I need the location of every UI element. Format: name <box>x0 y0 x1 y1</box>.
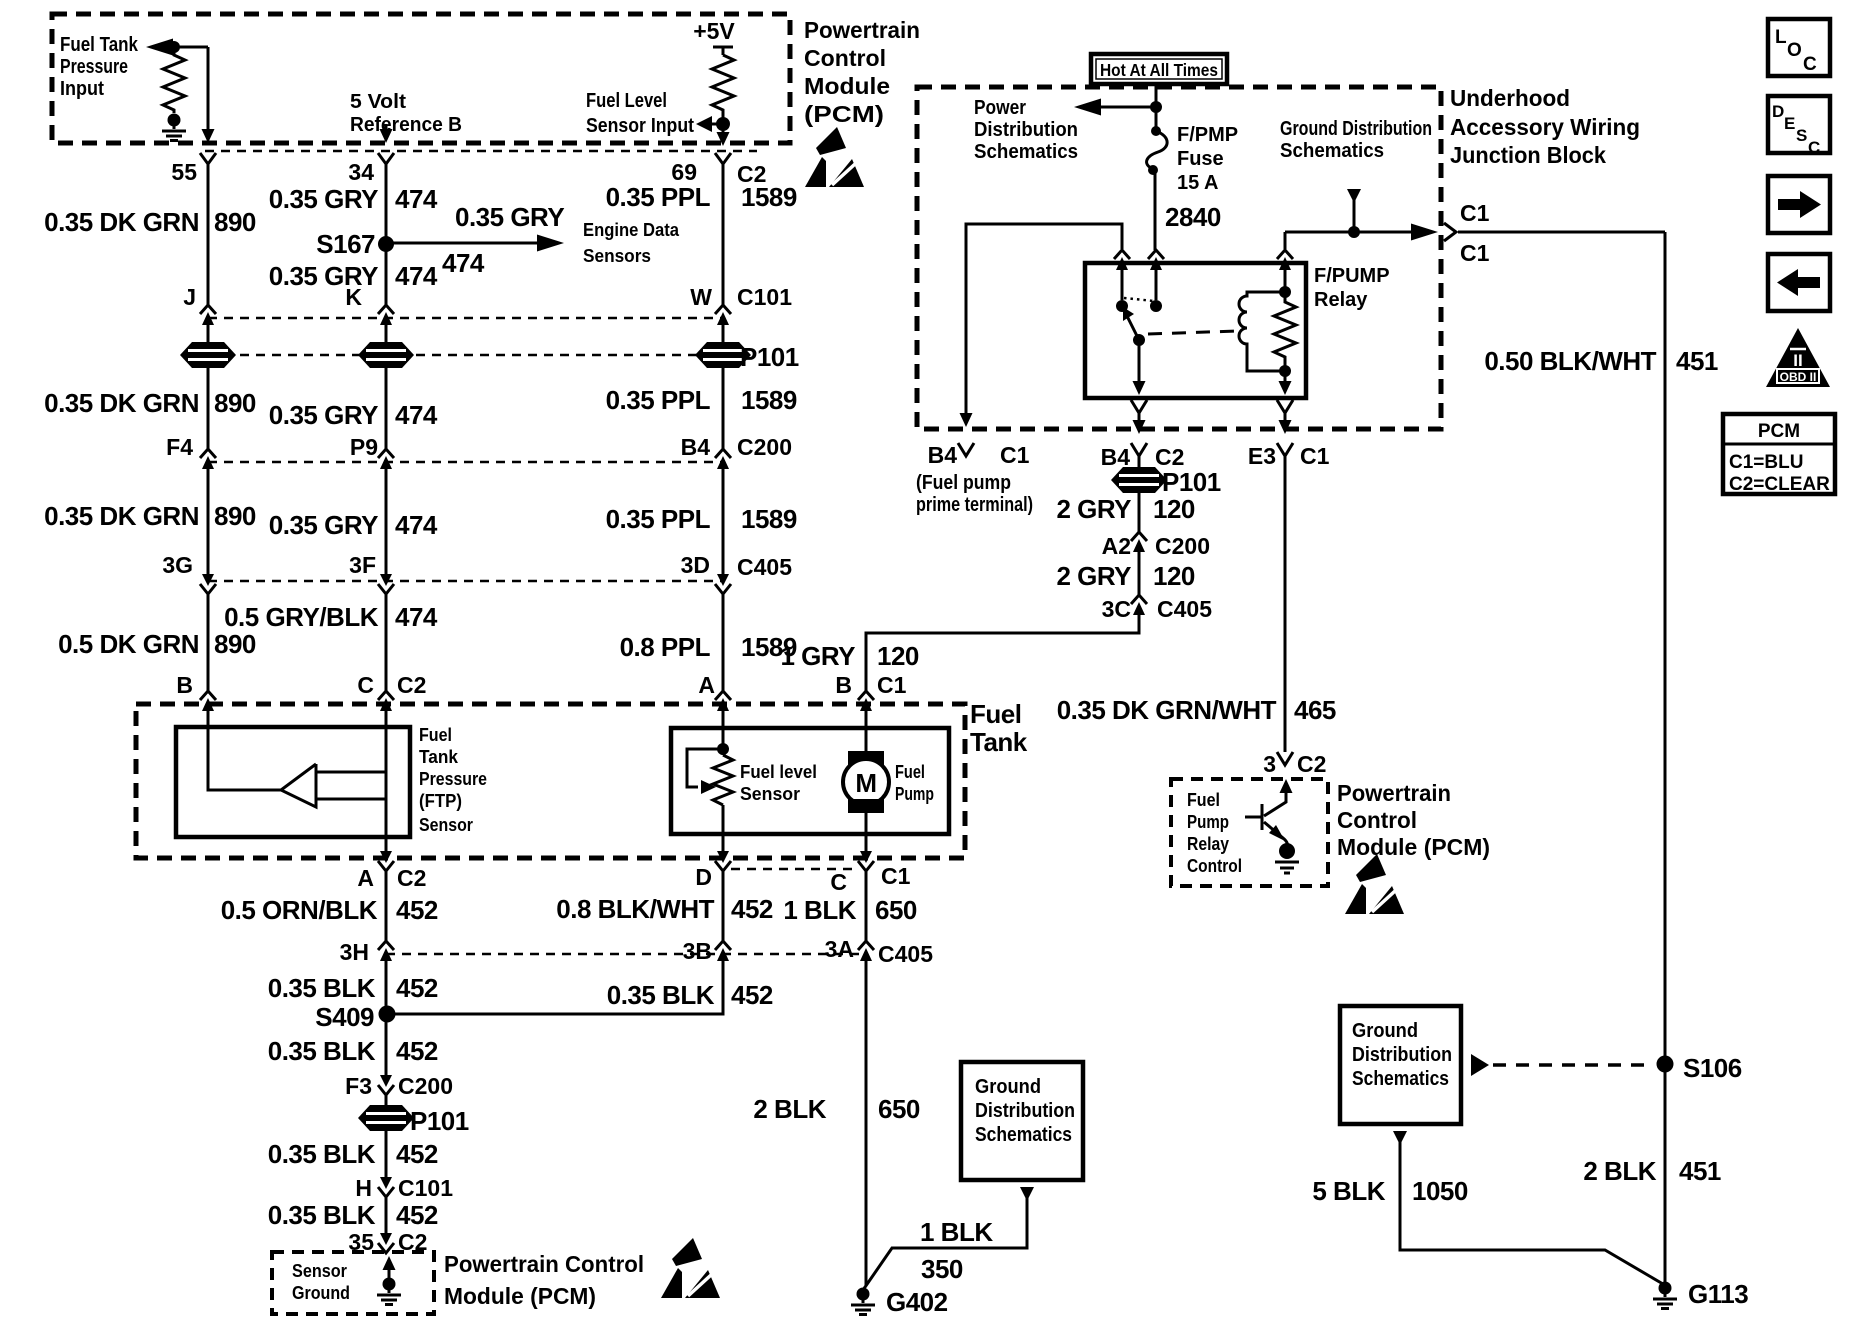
label F/PMP Fuse 15 A <box>1177 124 1238 194</box>
svg-text:PCM: PCM <box>1758 421 1800 442</box>
icon arrow left <box>1768 254 1830 311</box>
icon LOC <box>1768 19 1830 76</box>
Ground Distribution Schematics box left <box>961 1062 1083 1180</box>
svg-text:C200: C200 <box>398 1073 453 1099</box>
svg-text:0.35 BLK: 0.35 BLK <box>268 1036 376 1066</box>
wire 650 segment1 <box>865 871 868 941</box>
svg-text:452: 452 <box>396 1036 438 1066</box>
pin K C101 <box>345 284 394 325</box>
label 2 BLK 650 <box>753 1094 920 1124</box>
wire fuse to relay <box>1154 173 1157 250</box>
svg-text:474: 474 <box>395 184 438 214</box>
svg-text:0.8 BLK/WHT: 0.8 BLK/WHT <box>556 894 714 924</box>
svg-text:Fuel: Fuel <box>419 725 452 745</box>
svg-text:0.8 PPL: 0.8 PPL <box>620 632 711 662</box>
svg-text:Ground: Ground <box>975 1076 1041 1098</box>
label Ground Distribution Schematics right <box>1352 1020 1452 1090</box>
svg-text:3A: 3A <box>825 936 854 962</box>
ESD symbol PCM top <box>805 127 864 187</box>
label Fuel Tank Pressure (FTP) Sensor <box>419 725 487 835</box>
wire 474 segment1 (pin34 to S167) <box>385 164 388 240</box>
pin A fuel tank level sensor <box>698 672 731 711</box>
icon OBD II triangle <box>1766 328 1830 387</box>
svg-text:Fuse: Fuse <box>1177 148 1224 170</box>
svg-text:Schematics: Schematics <box>974 141 1078 163</box>
relay switch blade <box>1123 307 1145 346</box>
svg-text:474: 474 <box>395 400 438 430</box>
svg-text:452: 452 <box>396 1200 438 1230</box>
svg-text:Fuel: Fuel <box>970 699 1021 729</box>
svg-text:0.35 PPL: 0.35 PPL <box>606 182 711 212</box>
svg-text:451: 451 <box>1679 1156 1721 1186</box>
svg-text:F/PUMP: F/PUMP <box>1314 265 1390 287</box>
node splice S167 <box>316 229 394 259</box>
relay mechanical dashed link <box>1148 331 1237 334</box>
svg-text:A: A <box>698 672 715 698</box>
label Fuel Level Sensor Input <box>586 90 694 137</box>
wire FTP B lead <box>208 711 281 790</box>
pin C C1 pump output <box>830 851 910 895</box>
svg-text:1589: 1589 <box>741 182 797 212</box>
wire ground distribution antenna tap <box>1347 189 1361 238</box>
svg-text:Sensor: Sensor <box>740 784 800 804</box>
svg-text:S: S <box>1796 126 1807 145</box>
svg-text:452: 452 <box>731 980 773 1010</box>
label fuel pump prime terminal <box>916 472 1033 516</box>
svg-text:120: 120 <box>1153 561 1195 591</box>
svg-text:34: 34 <box>348 159 374 185</box>
label 2 BLK 451 <box>1583 1156 1721 1186</box>
svg-text:474: 474 <box>395 510 438 540</box>
svg-text:Relay: Relay <box>1187 834 1229 854</box>
wire FTP triangle top lead <box>316 771 386 774</box>
svg-text:0.35 BLK: 0.35 BLK <box>268 973 376 1003</box>
svg-text:M: M <box>855 768 876 798</box>
resistor relay <box>1274 292 1296 371</box>
wire 452 segment3 <box>385 1095 388 1106</box>
label 0.35 DK GRN 890 row2 <box>44 388 256 418</box>
svg-text:C1: C1 <box>1000 442 1030 468</box>
connector C405 line <box>208 580 723 583</box>
wire 452 A segment1 <box>385 871 388 941</box>
label Powertrain Control Module (PCM) right <box>1337 780 1490 860</box>
label 0.35 BLK 452 jumper <box>607 980 773 1010</box>
svg-text:Distribution: Distribution <box>1352 1044 1452 1066</box>
wire 1589 segment2 <box>722 325 725 343</box>
pin 3C C405 <box>1102 595 1213 622</box>
label 0.8 PPL 1589 <box>620 632 797 662</box>
svg-text:2 BLK: 2 BLK <box>753 1094 826 1124</box>
label Engine Data Sensors <box>583 220 680 266</box>
wire FTP C vertical through <box>385 711 388 851</box>
node junction dot FTP input <box>168 41 180 53</box>
label Fuel Pump <box>895 762 934 804</box>
label Sensor Ground <box>292 1261 350 1303</box>
wire 465 vertical <box>1284 456 1287 752</box>
label Fuel level Sensor <box>740 762 817 804</box>
grommet P101 wire2 <box>358 342 414 368</box>
label 0.35 GRY 474 row3 <box>269 510 438 540</box>
svg-text:Junction Block: Junction Block <box>1450 142 1606 168</box>
svg-text:D: D <box>695 864 712 890</box>
label 0.5 GRY/BLK 474 <box>224 602 438 632</box>
label Ground Distribution Schematics left <box>975 1076 1075 1146</box>
svg-text:B: B <box>835 672 852 698</box>
pin 69 C2 <box>671 153 766 187</box>
label 0.5 ORN/BLK 452 <box>221 895 438 925</box>
wire dashed link to S106 <box>1471 1054 1653 1076</box>
wire relay 30 to C1 line <box>1284 232 1287 249</box>
wire 1589 segment5 <box>722 594 725 691</box>
svg-text:C2: C2 <box>397 672 426 698</box>
svg-text:Tank: Tank <box>419 747 459 767</box>
svg-text:E3: E3 <box>1248 443 1276 469</box>
wire 452 segment4 <box>385 1130 388 1177</box>
resistor FTP pull-up <box>163 47 185 113</box>
svg-text:C2: C2 <box>397 865 426 891</box>
wire 890 segment5 <box>207 594 210 691</box>
Ground Distribution Schematics box right <box>1340 1006 1461 1124</box>
label 0.35 DK GRN 890 row1 <box>44 207 256 237</box>
wire B4 C1 branch <box>966 224 1122 415</box>
resistor fuel level sensor <box>713 755 733 805</box>
pin 3B C405 <box>683 938 731 964</box>
svg-text:3D: 3D <box>681 552 710 578</box>
svg-text:3G: 3G <box>162 552 193 578</box>
wire 474 segment6 <box>385 594 388 691</box>
Sensor Ground dashed box <box>272 1252 434 1314</box>
wire 1589 segment3 <box>722 367 725 449</box>
svg-text:465: 465 <box>1294 695 1336 725</box>
svg-text:S106: S106 <box>1683 1053 1742 1083</box>
svg-text:F/PMP: F/PMP <box>1177 124 1238 146</box>
svg-text:Schematics: Schematics <box>1280 140 1384 162</box>
svg-text:0.35 DK GRN: 0.35 DK GRN <box>44 207 199 237</box>
wire 890 segment2 <box>207 325 210 343</box>
wire hot feed <box>1155 84 1158 128</box>
svg-text:J: J <box>183 284 196 310</box>
label 0.35 DK GRN 890 row3 <box>44 501 256 531</box>
label 0.35 BLK 452 below S409 <box>268 1036 438 1066</box>
svg-text:C: C <box>1808 138 1820 157</box>
label Fuel Tank <box>970 699 1028 757</box>
svg-text:1050: 1050 <box>1412 1176 1468 1206</box>
wire power distribution arrow <box>1074 99 1156 116</box>
pin 3H C405 <box>340 939 394 965</box>
svg-text:A: A <box>357 865 374 891</box>
ground G402 <box>851 1287 948 1317</box>
ground sensor ground symbol <box>377 1256 401 1305</box>
svg-text:C1: C1 <box>877 672 907 698</box>
svg-text:Underhood: Underhood <box>1450 85 1570 111</box>
svg-text:C2: C2 <box>1297 751 1326 777</box>
svg-text:0.5 DK GRN: 0.5 DK GRN <box>58 629 199 659</box>
svg-text:Module (PCM): Module (PCM) <box>444 1283 596 1309</box>
svg-text:C200: C200 <box>737 434 792 460</box>
svg-text:0.35 DK GRN: 0.35 DK GRN <box>44 501 199 531</box>
wire 890 segment4 <box>207 469 210 574</box>
svg-text:F3: F3 <box>345 1073 372 1099</box>
svg-text:452: 452 <box>396 973 438 1003</box>
svg-text:Input: Input <box>60 78 104 100</box>
svg-text:C2=CLEAR: C2=CLEAR <box>1729 474 1830 495</box>
wire fuel level sensor bottom lead <box>722 805 725 851</box>
svg-text:120: 120 <box>877 641 919 671</box>
svg-text:C1: C1 <box>1300 443 1330 469</box>
svg-text:2 BLK: 2 BLK <box>1583 1156 1656 1186</box>
label 0.35 BLK 452 r5 <box>268 1200 438 1230</box>
node fuel level sensor dot <box>717 743 729 755</box>
svg-text:C1: C1 <box>1460 240 1490 266</box>
svg-text:0.35 GRY: 0.35 GRY <box>455 202 564 232</box>
svg-text:(PCM): (PCM) <box>804 101 884 127</box>
svg-text:Ground: Ground <box>292 1283 350 1303</box>
svg-text:5 Volt: 5 Volt <box>350 91 406 113</box>
svg-text:Pump: Pump <box>1187 812 1229 832</box>
svg-text:S409: S409 <box>315 1002 374 1032</box>
svg-text:H: H <box>355 1175 372 1201</box>
label 1 BLK 650 <box>783 895 917 925</box>
svg-text:0.35 PPL: 0.35 PPL <box>606 385 711 415</box>
wire 120 segment2 <box>1138 552 1141 595</box>
wire pin 34 stub <box>380 124 393 143</box>
svg-text:Control: Control <box>804 45 886 71</box>
label 0.35 DK GRN/WHT 465 <box>1057 695 1336 725</box>
svg-text:C1: C1 <box>1460 200 1490 226</box>
svg-text:B: B <box>176 672 193 698</box>
label Powertrain Control Module (PCM) bottom <box>444 1251 644 1309</box>
label 0.35 PPL 1589 row3 <box>606 504 797 534</box>
wire 650 segment2 to G402 <box>865 961 868 1285</box>
svg-text:0.35 DK GRN: 0.35 DK GRN <box>44 388 199 418</box>
svg-text:C101: C101 <box>398 1175 453 1201</box>
grommet P101 wire3 <box>695 342 799 372</box>
svg-text:451: 451 <box>1676 346 1718 376</box>
svg-text:Engine Data: Engine Data <box>583 220 680 240</box>
svg-text:OBD II: OBD II <box>1780 370 1817 384</box>
icon DESC <box>1768 96 1830 157</box>
svg-text:890: 890 <box>214 501 256 531</box>
FTP sensor box <box>176 727 410 837</box>
svg-text:474: 474 <box>395 602 438 632</box>
wire fuel level wiper loop <box>687 749 723 794</box>
PCM top-left dashed box <box>52 14 790 143</box>
connector line PCM C2 pins <box>205 150 757 153</box>
pin B fuel tank FTP <box>176 672 216 711</box>
svg-text:0.35 PPL: 0.35 PPL <box>606 504 711 534</box>
svg-text:Fuel: Fuel <box>895 762 925 782</box>
wire 451 vertical <box>1664 232 1667 1283</box>
wire 474 segment3 <box>385 325 388 343</box>
wire 452 D segment1 <box>722 871 725 941</box>
relay switch output wire <box>1133 340 1146 395</box>
label 0.8 BLK/WHT 452 <box>556 894 773 924</box>
relay box F/PUMP <box>1085 263 1306 398</box>
node hot junction dot <box>1150 101 1162 113</box>
wire Fuel Tank Pressure Input arrow to pin 55 <box>146 39 215 144</box>
wire 474 segment5 <box>385 469 388 574</box>
pin B4 C2 junction block output <box>1101 400 1185 470</box>
node splice S106 <box>1657 1053 1742 1083</box>
svg-text:0.35 GRY: 0.35 GRY <box>269 510 378 540</box>
pin C C2 fuel tank FTP <box>357 672 426 711</box>
wire 120 to fuel pump <box>866 615 1139 691</box>
svg-text:890: 890 <box>214 629 256 659</box>
svg-text:C: C <box>830 869 847 895</box>
pin A C2 FTP output <box>357 851 426 891</box>
grommet P101 right <box>1111 456 1221 497</box>
op-amp FTP triangle <box>281 764 316 807</box>
wire 890 segment3 <box>207 367 210 449</box>
svg-text:15 A: 15 A <box>1177 172 1219 194</box>
svg-text:C405: C405 <box>878 941 933 967</box>
svg-text:P101: P101 <box>740 342 799 372</box>
transistor fuel pump relay driver <box>1245 779 1293 847</box>
relay terminal 30 entry <box>1114 250 1130 312</box>
wire S167 branch to engine data sensors <box>386 235 564 252</box>
svg-text:C405: C405 <box>737 554 792 580</box>
wire 474 segment2 (S167 to C101) <box>385 248 388 305</box>
svg-text:Relay: Relay <box>1314 289 1368 311</box>
svg-text:890: 890 <box>214 388 256 418</box>
svg-text:Ground: Ground <box>1352 1020 1418 1042</box>
svg-text:K: K <box>345 284 362 310</box>
svg-text:Pump: Pump <box>895 784 934 804</box>
wire fuel level sensor top lead <box>722 711 725 755</box>
label 0.35 BLK 452 left <box>268 973 438 1003</box>
pin 55 <box>171 153 216 185</box>
svg-text:(FTP): (FTP) <box>419 791 462 811</box>
ESD symbol PCM bottom <box>661 1238 720 1298</box>
pin 3A C405 <box>825 936 934 967</box>
wire 1589 segment4 <box>722 469 725 574</box>
label 0.35 GRY 474 branch <box>442 202 564 278</box>
Hot At All Times box <box>1091 54 1227 84</box>
svg-text:D: D <box>1772 102 1784 121</box>
svg-text:Distribution: Distribution <box>974 119 1078 141</box>
svg-text:5 BLK: 5 BLK <box>1312 1176 1385 1206</box>
svg-text:120: 120 <box>1153 494 1195 524</box>
svg-text:2840: 2840 <box>1165 202 1221 232</box>
svg-text:1 BLK: 1 BLK <box>783 895 856 925</box>
svg-text:Fuel level: Fuel level <box>740 762 817 782</box>
svg-text:55: 55 <box>171 159 197 185</box>
wire 452 A segment2 <box>385 961 388 1075</box>
pin 34 <box>348 153 394 185</box>
svg-text:Module (PCM): Module (PCM) <box>1337 834 1490 860</box>
svg-text:P101: P101 <box>1162 467 1221 497</box>
junction block dashed box <box>917 87 1441 429</box>
svg-text:Ground Distribution: Ground Distribution <box>1280 118 1432 140</box>
svg-text:O: O <box>1787 40 1802 61</box>
svg-text:Tank: Tank <box>970 727 1028 757</box>
label 0.35 GRY 474 row1b <box>269 261 438 291</box>
svg-text:3C: 3C <box>1102 596 1131 622</box>
pin P9 C200 <box>350 434 394 469</box>
label Powertrain Control Module (PCM) top <box>804 17 920 127</box>
grommet line P101 <box>208 354 723 357</box>
pin 3G C405 <box>162 552 216 594</box>
svg-text:452: 452 <box>396 895 438 925</box>
label 2 GRY 120 upper <box>1056 494 1194 524</box>
svg-text:474: 474 <box>442 248 485 278</box>
node junction dot fuel level input <box>716 117 730 131</box>
label 5 BLK 1050 <box>1312 1176 1468 1206</box>
connector line pump assembly <box>731 868 856 871</box>
svg-text:3B: 3B <box>683 938 712 964</box>
svg-text:0.5 ORN/BLK: 0.5 ORN/BLK <box>221 895 378 925</box>
svg-text:B4: B4 <box>1101 444 1131 470</box>
relay terminal 85 entry <box>1277 250 1293 288</box>
svg-text:Distribution: Distribution <box>975 1100 1075 1122</box>
pin J C101 <box>183 284 216 325</box>
wire fuel pump top lead <box>865 711 868 753</box>
ground G113 <box>1653 1279 1748 1309</box>
wire S409 jumper to D <box>387 961 723 1014</box>
wire FTP triangle bottom lead <box>316 798 386 801</box>
svg-text:2 GRY: 2 GRY <box>1056 494 1131 524</box>
wire 452 segment5 <box>385 1197 388 1233</box>
svg-text:Module: Module <box>804 73 890 99</box>
svg-text:2 GRY: 2 GRY <box>1056 561 1131 591</box>
grommet P101 lower <box>358 1105 469 1136</box>
svg-text:890: 890 <box>214 207 256 237</box>
connector C101 line <box>208 317 723 320</box>
label 2 GRY 120 lower <box>1056 561 1194 591</box>
pin E3 C1 junction block output <box>1248 400 1330 469</box>
svg-text:P9: P9 <box>350 434 378 460</box>
wire ground distribution to G113 <box>1393 1131 1663 1284</box>
svg-text:C405: C405 <box>1157 596 1212 622</box>
svg-text:Powertrain Control: Powertrain Control <box>444 1251 644 1277</box>
fuel pump assembly box <box>671 728 949 834</box>
pin 3D C405 <box>681 552 793 594</box>
label F/PUMP Relay <box>1314 265 1390 311</box>
svg-text:L: L <box>1775 27 1787 48</box>
svg-text:3F: 3F <box>349 552 376 578</box>
resistor fuel level pull-up <box>712 55 734 118</box>
svg-text:350: 350 <box>921 1254 963 1284</box>
wire 474 segment4 <box>385 367 388 449</box>
svg-text:Schematics: Schematics <box>975 1124 1072 1146</box>
pin D fuel level output <box>695 851 731 890</box>
node relay coil bottom <box>1279 365 1291 377</box>
svg-text:Powertrain: Powertrain <box>1337 780 1451 806</box>
svg-text:0.35 BLK: 0.35 BLK <box>268 1139 376 1169</box>
svg-text:1 GRY: 1 GRY <box>780 641 855 671</box>
legend PCM connector colors <box>1723 414 1835 495</box>
wire +5V tick <box>713 47 733 55</box>
ESD symbol PCM right <box>1345 854 1404 914</box>
svg-text:0.35 DK GRN/WHT: 0.35 DK GRN/WHT <box>1057 695 1277 725</box>
svg-text:Fuel Level: Fuel Level <box>586 90 667 112</box>
pin 35 C2 <box>348 1229 427 1255</box>
svg-text:Power: Power <box>974 97 1026 119</box>
svg-text:Reference B: Reference B <box>350 114 462 136</box>
svg-text:Control: Control <box>1187 856 1242 876</box>
svg-text:Sensor Input: Sensor Input <box>586 115 694 137</box>
pin B4 C1 prime terminal <box>928 413 1030 468</box>
svg-text:0.5 GRY/BLK: 0.5 GRY/BLK <box>224 602 379 632</box>
svg-text:0.35 BLK: 0.35 BLK <box>607 980 715 1010</box>
svg-text:1589: 1589 <box>741 504 797 534</box>
svg-text:S167: S167 <box>316 229 375 259</box>
svg-text:C101: C101 <box>737 284 792 310</box>
pin F3 C200 <box>345 1073 453 1099</box>
Fuel Pump Relay Control dashed box <box>1171 779 1328 886</box>
svg-text:F4: F4 <box>166 434 193 460</box>
grommet P101 wire1 <box>180 342 236 368</box>
